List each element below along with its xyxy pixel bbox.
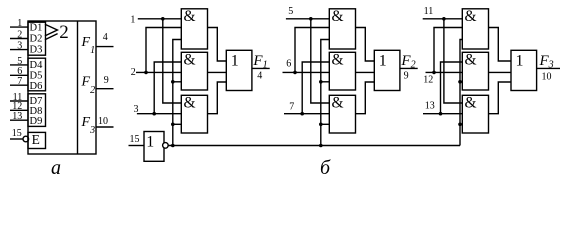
wire F3 output bbox=[537, 67, 560, 69]
svg-text:2: 2 bbox=[131, 67, 136, 78]
AND gate DD4.3 bbox=[329, 95, 355, 133]
svg-text:F3: F3 bbox=[539, 53, 554, 70]
junction input7/branch bbox=[300, 112, 304, 116]
pin 10 lead F3 output bbox=[96, 126, 114, 128]
OR gate DD3.3 bbox=[511, 50, 537, 90]
wire E stub to DD2.2 bbox=[173, 81, 182, 83]
AND gate DD5.1 bbox=[462, 9, 488, 49]
wire branch 11 to AND DD5.3 bbox=[444, 19, 462, 103]
svg-text:&: & bbox=[332, 94, 344, 111]
svg-text:7: 7 bbox=[289, 101, 294, 112]
svg-text:D4: D4 bbox=[30, 60, 44, 71]
svg-text:9: 9 bbox=[104, 75, 109, 86]
svg-text:F2: F2 bbox=[400, 53, 415, 70]
svg-text:a: a bbox=[51, 157, 61, 178]
wire E stub to DD5.3 bbox=[460, 123, 462, 125]
input label box D1-D3 bbox=[28, 22, 46, 55]
wire DD2.3 output bbox=[208, 82, 227, 114]
wire DD4.3 output bbox=[356, 82, 375, 114]
junction input5/branch bbox=[309, 17, 313, 21]
svg-text:1: 1 bbox=[231, 53, 239, 70]
junction E/DD5.3 bbox=[458, 123, 462, 127]
wire input 1 bbox=[138, 18, 182, 20]
svg-text:&: & bbox=[332, 51, 344, 68]
svg-text:2: 2 bbox=[59, 22, 69, 43]
svg-text:10: 10 bbox=[542, 72, 552, 83]
svg-text:D6: D6 bbox=[30, 81, 43, 92]
junction E bus group2 bbox=[319, 144, 323, 148]
wire branch 1 to AND DD2.3 bbox=[163, 19, 182, 103]
wire input 15 bbox=[129, 145, 145, 147]
pin 3 lead bbox=[10, 49, 28, 51]
wire branch 5 to AND DD4.3 bbox=[311, 19, 330, 103]
AND gate DD2.3 bbox=[181, 95, 207, 133]
wire E stub to DD4.3 bbox=[321, 123, 330, 125]
svg-text:5: 5 bbox=[288, 6, 293, 17]
wire DD4.2 output bbox=[356, 71, 375, 73]
junction input12/branch bbox=[432, 71, 436, 75]
junction E/DD2.3 bbox=[171, 123, 175, 127]
svg-text:5: 5 bbox=[17, 56, 22, 67]
wire branch 7 to AND DD4.2 bbox=[302, 62, 329, 114]
wire input 5 bbox=[286, 18, 329, 20]
wire branch 13 to AND DD5.2 bbox=[441, 62, 463, 114]
wire DD5.1 output bbox=[489, 28, 512, 62]
svg-text:4: 4 bbox=[103, 32, 108, 43]
wire input 7 bbox=[284, 113, 329, 115]
pin 6 lead bbox=[10, 74, 28, 76]
pin 13 lead bbox=[10, 119, 28, 121]
svg-text:&: & bbox=[184, 51, 196, 68]
svg-text:1: 1 bbox=[146, 133, 154, 150]
svg-text:13: 13 bbox=[425, 101, 435, 112]
wire E riser group2 bbox=[321, 40, 330, 146]
junction input11/branch bbox=[442, 17, 446, 21]
svg-text:1: 1 bbox=[130, 14, 135, 25]
AND gate DD4.2 bbox=[329, 52, 355, 90]
wire F2 output bbox=[400, 67, 418, 69]
svg-text:3: 3 bbox=[134, 104, 139, 115]
svg-text:7: 7 bbox=[17, 76, 22, 87]
pin 11 lead bbox=[10, 100, 28, 102]
svg-text:&: & bbox=[465, 8, 477, 25]
svg-text:13: 13 bbox=[12, 111, 22, 122]
wire branch 3 to AND DD2.2 bbox=[154, 62, 181, 114]
svg-text:D1: D1 bbox=[30, 23, 43, 34]
svg-text:2: 2 bbox=[17, 29, 22, 40]
AND gate DD5.2 bbox=[462, 52, 488, 90]
junction input6/branch bbox=[293, 71, 297, 75]
svg-text:&: & bbox=[184, 94, 196, 111]
wire DD2.1 output bbox=[208, 28, 227, 62]
wire DD4.1 output bbox=[356, 28, 375, 62]
svg-text:6: 6 bbox=[286, 59, 291, 70]
pin 2 lead bbox=[10, 38, 28, 40]
svg-text:15: 15 bbox=[12, 128, 22, 139]
wire input 11 bbox=[423, 18, 463, 20]
AND gate DD2.2 bbox=[181, 52, 207, 90]
wire input 12 bbox=[426, 71, 463, 73]
wire input 6 bbox=[283, 71, 330, 73]
svg-text:1: 1 bbox=[379, 53, 387, 70]
svg-text:&: & bbox=[184, 8, 196, 25]
wire DD5.2 output bbox=[489, 71, 512, 73]
svg-text:D2: D2 bbox=[30, 34, 43, 45]
svg-text:&: & bbox=[465, 94, 477, 111]
svg-text:F3: F3 bbox=[81, 115, 96, 136]
wire E stub to DD5.2 bbox=[460, 81, 462, 83]
wire E riser group1 bbox=[173, 40, 182, 146]
wire branch 2 to AND DD2.1 bbox=[146, 28, 181, 73]
svg-text:9: 9 bbox=[404, 70, 409, 81]
pin 7 lead bbox=[10, 84, 28, 86]
svg-text:3: 3 bbox=[17, 41, 22, 52]
pin 4 lead F1 output bbox=[96, 46, 114, 48]
input label box D4-D6 bbox=[28, 58, 46, 91]
svg-text:&: & bbox=[332, 8, 344, 25]
AND gate DD5.3 bbox=[462, 95, 488, 133]
wire input 3 bbox=[137, 113, 181, 115]
input label box D7-D9 bbox=[28, 94, 46, 127]
wire E stub to DD4.2 bbox=[321, 81, 330, 83]
wire F1 output bbox=[252, 67, 270, 69]
svg-text:10: 10 bbox=[98, 116, 108, 127]
wire input 2 bbox=[136, 71, 181, 73]
svg-text:4: 4 bbox=[257, 71, 262, 82]
wire DD5.3 output bbox=[489, 82, 512, 114]
pin 15 lead bbox=[10, 138, 23, 140]
junction E/DD5.2 bbox=[458, 80, 462, 84]
OR gate DD3.2 bbox=[374, 50, 400, 90]
input label box E bbox=[28, 132, 46, 148]
OR gate DD3.1 bbox=[226, 50, 252, 90]
svg-text:F1: F1 bbox=[81, 35, 96, 56]
svg-text:11: 11 bbox=[424, 6, 434, 17]
junction input1/branch bbox=[161, 17, 165, 21]
svg-text:E: E bbox=[32, 132, 40, 147]
function symbol &#8805;2 chevron bbox=[45, 24, 58, 40]
svg-text:б: б bbox=[320, 157, 331, 178]
svg-text:D9: D9 bbox=[30, 116, 43, 127]
junction E/DD2.2 bbox=[171, 80, 175, 84]
wire E riser group3 bbox=[460, 40, 462, 146]
pin 9 lead F2 output bbox=[96, 88, 114, 90]
wire DD2.2 output bbox=[208, 71, 227, 73]
inversion bubble on E input bbox=[23, 136, 29, 142]
svg-text:15: 15 bbox=[130, 134, 140, 145]
junction E bus group1 bbox=[171, 144, 175, 148]
svg-text:&: & bbox=[465, 51, 477, 68]
wire E stub to DD2.3 bbox=[173, 123, 182, 125]
junction input2/branch bbox=[144, 71, 148, 75]
junction E/DD4.3 bbox=[319, 123, 323, 127]
svg-text:1: 1 bbox=[516, 53, 524, 70]
svg-text:12: 12 bbox=[423, 74, 433, 85]
svg-text:F2: F2 bbox=[81, 75, 96, 96]
junction E/DD4.2 bbox=[319, 80, 323, 84]
pin 5 lead bbox=[10, 64, 28, 66]
junction input13/branch bbox=[439, 112, 443, 116]
svg-text:F1: F1 bbox=[252, 53, 267, 70]
junction input3/branch bbox=[152, 112, 156, 116]
IC DD1 outline bbox=[28, 21, 96, 154]
NOT gate DD6.1 bbox=[144, 132, 164, 162]
NOT gate output bubble bbox=[163, 143, 169, 149]
AND gate DD2.1 bbox=[181, 9, 207, 49]
svg-text:1: 1 bbox=[17, 18, 22, 29]
pin 12 lead bbox=[10, 109, 28, 111]
wire branch 6 to AND DD4.1 bbox=[295, 28, 329, 73]
svg-text:D3: D3 bbox=[30, 45, 43, 56]
wire input 13 bbox=[423, 113, 462, 115]
svg-text:D5: D5 bbox=[30, 71, 43, 82]
AND gate DD4.1 bbox=[329, 9, 355, 49]
wire E bus bbox=[168, 145, 460, 147]
pin 1 lead bbox=[10, 26, 28, 28]
IC DD1 output-field separator bbox=[77, 21, 79, 154]
wire branch 12 to AND DD5.1 bbox=[434, 28, 462, 73]
